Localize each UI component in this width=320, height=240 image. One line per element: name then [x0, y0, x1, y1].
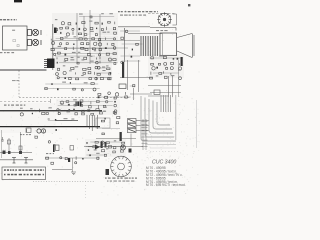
- long wire y56: [55, 55, 95, 57]
- tuner input row: [79, 13, 114, 18]
- wire: [168, 76, 170, 97]
- dotted separator: [33, 181, 95, 183]
- wire: [118, 26, 150, 28]
- vertical wire: [20, 132, 22, 153]
- label text below module: [0, 52, 14, 53]
- label text top-left: [0, 19, 17, 20]
- dashed enclosure vertical: [18, 71, 20, 98]
- svg-text:CUC 3400: CUC 3400: [152, 160, 176, 166]
- module inner detail: [12, 30, 19, 47]
- upper rows right: [58, 99, 117, 108]
- components near bundle: [98, 92, 131, 99]
- relay box fills: [128, 119, 135, 132]
- parts below rail2: [27, 129, 57, 133]
- label text in enclosure: [12, 80, 19, 81]
- mid column rows: [120, 30, 142, 63]
- socket label text2: [107, 181, 134, 182]
- audio jack J1: [28, 29, 42, 35]
- faint dotted row: [150, 151, 178, 153]
- wire mid: [96, 138, 136, 140]
- bottom row parts: [46, 156, 99, 159]
- IF stage row 2: [55, 27, 116, 31]
- row above connector: [57, 56, 118, 65]
- circles in deflection: [121, 145, 126, 150]
- wire: [133, 88, 135, 100]
- yoke winding faint: [161, 95, 171, 112]
- wire: [120, 77, 152, 79]
- capacitor C31: [24, 158, 28, 164]
- socket label text: [105, 178, 137, 179]
- bracket right of tuner: [173, 14, 177, 25]
- dark cap on wire: [120, 132, 122, 141]
- parts on rail1 left: [20, 107, 61, 116]
- component on wire: [8, 140, 11, 144]
- label text rows2: [120, 15, 146, 16]
- label text rows: [118, 11, 158, 12]
- sparse parts left: [35, 136, 56, 145]
- flyback winding: [141, 36, 157, 56]
- chroma col rows: [96, 65, 112, 79]
- wire row: [0, 152, 32, 154]
- sound stage rows: [56, 65, 112, 80]
- page fold line faint: [196, 100, 198, 148]
- relay drop wire: [130, 134, 132, 147]
- text row small: [46, 153, 54, 154]
- notes box: [2, 167, 46, 180]
- capacitor bar and box: [53, 145, 55, 153]
- connector block: [47, 59, 55, 69]
- wire bus left: [0, 69, 47, 71]
- marks: [130, 85, 135, 87]
- IF stage row 1: [55, 19, 115, 25]
- small parts left of cap: [102, 133, 105, 135]
- socket pins dark: [106, 169, 110, 175]
- dashed enclosure horizontal: [19, 97, 130, 99]
- value label: [156, 30, 168, 31]
- vertical wire: [8, 138, 10, 153]
- wire drop: [175, 28, 177, 31]
- wire: [130, 93, 152, 95]
- heavy rail 1: [0, 110, 102, 112]
- terminal ladder: [142, 119, 148, 150]
- wire row bottom: [45, 157, 100, 159]
- notes text line2: [4, 174, 44, 176]
- faint vertical dotted: [85, 185, 87, 199]
- dark circle pair: [37, 129, 41, 133]
- deflection row part: [86, 153, 107, 157]
- wire to tuner: [150, 27, 176, 29]
- long wire y40: [52, 39, 140, 41]
- vertical wire: [89, 10, 91, 64]
- wire: [84, 146, 143, 148]
- bracket part: [70, 146, 74, 151]
- wires from contacts: [136, 120, 149, 122]
- dash-dot wire: [148, 13, 176, 15]
- faint line below CRT: [145, 144, 176, 146]
- svg-text:M 70 - 695 9/CTI : text mod.: M 70 - 695 9/CTI : text mod.: [146, 183, 186, 187]
- ground symbol: [1, 137, 4, 141]
- dark component pair: [76, 102, 82, 107]
- sparse row: [51, 162, 77, 165]
- component on wire2: [19, 146, 22, 150]
- IF stage row 3: [55, 31, 117, 37]
- diode box: [119, 84, 126, 89]
- resistor: [154, 90, 160, 95]
- long wire y48: [52, 47, 128, 49]
- component row above dashed line: [44, 82, 100, 91]
- tuner drum: [157, 12, 172, 27]
- vertical wire: [83, 16, 85, 40]
- CRT neck funnel: [177, 34, 194, 58]
- vertical wire to connector: [52, 24, 54, 70]
- parts on rail1 right: [58, 107, 117, 116]
- faint wire in box: [102, 128, 120, 130]
- wire: [148, 85, 181, 87]
- wire: [0, 159, 33, 161]
- audio module box: [3, 26, 28, 50]
- dark blobs on wire: [3, 151, 6, 155]
- notes text line1: [4, 169, 44, 171]
- wire: [127, 60, 129, 90]
- dash-dot line left: [0, 101, 51, 103]
- wire short: [52, 169, 72, 171]
- heavy rail 2: [0, 126, 100, 128]
- dark bar right: [181, 57, 183, 66]
- capacitor bar: [122, 62, 124, 78]
- text under box: [20, 134, 31, 135]
- CRT socket: [111, 156, 132, 177]
- dark component: [54, 28, 57, 34]
- wire: [128, 33, 162, 35]
- vertical wire bundle: [87, 115, 97, 131]
- dark blob lower: [129, 149, 132, 153]
- scan noise speckle: [1, 10, 201, 195]
- wire: [148, 95, 168, 97]
- diode triangle: [95, 145, 100, 150]
- registration mark top edge: [14, 0, 22, 2]
- HOT box: [160, 33, 177, 56]
- scan density wash: [0, 13, 184, 157]
- vertical wire: [124, 28, 126, 62]
- faint line below CRT 2: [150, 147, 176, 149]
- dark caps: [101, 142, 103, 149]
- corner junction dark: [68, 158, 70, 162]
- ground symbol 2: [71, 172, 76, 175]
- left edge wire: [1, 130, 3, 158]
- parts column x100-122: [101, 111, 120, 124]
- rail segment: [56, 120, 78, 122]
- wire: [172, 76, 174, 97]
- capacitor C30: [12, 158, 16, 164]
- box inner line: [162, 33, 164, 56]
- box upper right of rail: [26, 128, 31, 133]
- text row left: [4, 105, 25, 106]
- components below HOT: [149, 56, 182, 80]
- deflection rows: [86, 140, 125, 153]
- wire: [150, 92, 181, 94]
- page number mark: [188, 4, 190, 6]
- CRT right edge faint: [175, 95, 177, 140]
- CRT bulb outline faint: [141, 96, 176, 141]
- mid row y120: [48, 118, 75, 121]
- wire: [178, 60, 180, 97]
- vertical wire: [72, 158, 74, 172]
- module box outline: [96, 118, 110, 128]
- video amp rows: [50, 36, 116, 56]
- vertical wire: [76, 13, 78, 64]
- relay contact boxes: [128, 119, 137, 123]
- audio jack J2: [28, 39, 42, 45]
- vertical wire: [99, 14, 101, 56]
- wire: [138, 60, 140, 92]
- model list rows: [146, 166, 186, 187]
